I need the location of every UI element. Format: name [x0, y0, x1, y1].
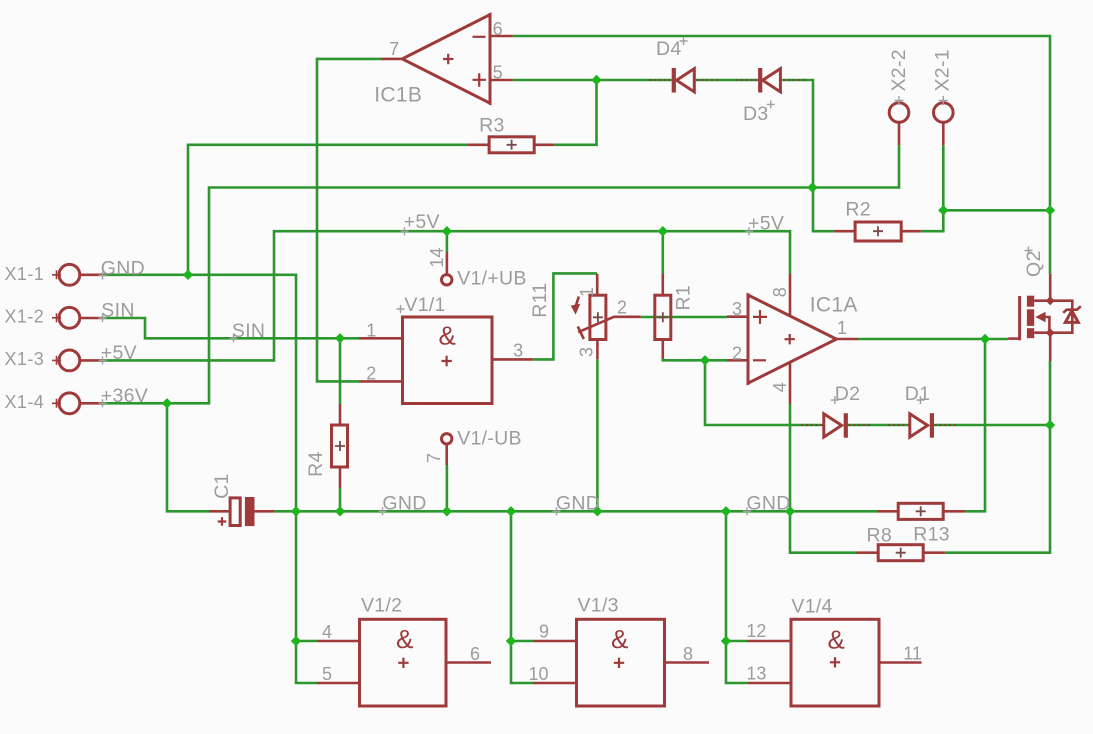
- svg-text:IC1A: IC1A: [810, 294, 858, 317]
- pin stub dashes near D1: [888, 424, 956, 426]
- svg-text:1: 1: [366, 321, 376, 341]
- wire R11 wiper to IC1A pin3: [641, 316, 727, 319]
- wire GND bus from C1 to R13 left: [274, 510, 877, 513]
- svg-text:R4: R4: [305, 451, 327, 477]
- op-amp IC1B: [381, 13, 513, 105]
- wire X2-1 drop to R2 right: [921, 145, 944, 231]
- svg-text:X1-1: X1-1: [5, 264, 45, 284]
- wire SIN X1-2 to V1/1 pin1: [104, 318, 359, 338]
- label D2 with origin cross: [831, 383, 861, 405]
- pin stub dashes near D2: [801, 424, 870, 426]
- label D3 with origin cross: [743, 100, 775, 124]
- svg-text:+5V: +5V: [404, 211, 440, 233]
- junction X2-1 line left: [938, 205, 948, 215]
- svg-text:2: 2: [617, 298, 627, 318]
- svg-text:3: 3: [732, 299, 742, 319]
- svg-text:3: 3: [513, 341, 523, 361]
- svg-text:&: &: [828, 624, 845, 654]
- svg-text:X1-4: X1-4: [5, 392, 45, 412]
- junction GND bus at V1/4 riser: [721, 506, 731, 516]
- junction SIN at R4 riser: [335, 333, 345, 343]
- net label SIN at X1-2: [99, 299, 135, 322]
- svg-text:X2-1: X2-1: [932, 49, 954, 91]
- diode D3: [758, 68, 780, 93]
- wire D1 to Q2 source junction: [934, 424, 1050, 427]
- svg-text:8: 8: [683, 644, 693, 664]
- wire between D4 and D3: [696, 79, 758, 82]
- wire IC1B.6 top rail to right vertical down to Q2 drain: [513, 36, 1050, 274]
- pin stub dashes near D3: [736, 79, 805, 81]
- junction pin5 line at R3 riser: [591, 75, 601, 85]
- svg-text:V1/3: V1/3: [578, 595, 619, 617]
- svg-text:10: 10: [529, 664, 549, 684]
- junction GND bus at V1/3 riser: [506, 506, 516, 516]
- wire D3 to corner down to R2 left: [782, 80, 834, 231]
- svg-text:D4: D4: [656, 38, 682, 60]
- svg-text:X1-2: X1-2: [5, 307, 45, 327]
- svg-text:12: 12: [746, 621, 766, 641]
- junction +5V rail at V1/+UB: [442, 226, 452, 236]
- svg-text:5: 5: [322, 664, 332, 684]
- wire GND bus to V1/4 pins 12 and 13: [726, 511, 748, 683]
- svg-text:R13: R13: [913, 523, 950, 545]
- junction GND bus at R11 riser: [592, 506, 602, 516]
- wire junction to D2/D1 line segment a: [705, 360, 824, 425]
- net label +5V at X1-3: [99, 342, 137, 364]
- wire +36V junction down to C1 left: [167, 403, 209, 511]
- net label +36V at X1-4: [99, 385, 149, 407]
- svg-text:5: 5: [493, 63, 503, 83]
- svg-text:8: 8: [770, 287, 790, 297]
- wire V1/+UB drop from +5V rail: [446, 231, 449, 252]
- svg-text:4: 4: [770, 382, 790, 392]
- wire R1 bottom to IC1A pin2: [663, 358, 727, 360]
- svg-text:&: &: [611, 624, 628, 654]
- svg-text:GND: GND: [556, 492, 600, 514]
- svg-text:6: 6: [470, 644, 480, 664]
- resistor R13: [877, 503, 965, 519]
- wire GND bus to V1/2 pins 4 and 5: [296, 511, 317, 683]
- wire GND bus to V1/3 pins 9 and 10: [511, 511, 533, 683]
- NAND gate V1/4: [747, 619, 922, 706]
- net label GND (bus right): [743, 492, 791, 515]
- wire R3 right end up to pin5 line junction: [554, 80, 596, 145]
- svg-text:D1: D1: [905, 383, 931, 405]
- resistor R1: [655, 274, 671, 359]
- potentiometer R11: [571, 274, 641, 359]
- wire R1 top to +5V rail: [661, 231, 664, 274]
- pin stub dashes near D4: [649, 79, 718, 81]
- svg-text:R1: R1: [673, 285, 695, 311]
- svg-text:6: 6: [493, 19, 503, 39]
- svg-text:11: 11: [903, 644, 922, 664]
- wire R4 bottom to GND bus: [339, 488, 342, 511]
- svg-text:Q2: Q2: [1023, 250, 1045, 277]
- svg-text:X1-3: X1-3: [5, 349, 45, 369]
- svg-text:GND: GND: [382, 492, 426, 514]
- wire +5V rail X1-3 up and across to IC1A pin8: [104, 231, 790, 360]
- wire R8 right up to D1/Q2 junction: [945, 361, 1050, 553]
- svg-text:V1/+UB: V1/+UB: [457, 267, 527, 289]
- svg-text:X2-2: X2-2: [888, 49, 910, 91]
- svg-text:2: 2: [732, 344, 742, 364]
- NAND gate V1/1: [359, 317, 533, 404]
- junction IC1A output / gate line: [980, 334, 990, 344]
- svg-text:GND: GND: [746, 492, 790, 514]
- op-amp IC1A: [727, 273, 858, 403]
- svg-text:4: 4: [322, 622, 332, 642]
- connector pin X2-2: [889, 96, 909, 145]
- svg-text:14: 14: [427, 248, 447, 268]
- svg-text:&: &: [396, 624, 413, 654]
- svg-text:13: 13: [746, 664, 766, 684]
- svg-text:&: &: [439, 321, 456, 351]
- power pin V1/+UB (pin 14): [442, 253, 452, 285]
- junction X2-1 line right: [1045, 205, 1055, 215]
- junction GND bus at IC1A pin4: [785, 506, 795, 516]
- connector pin X1-4: [52, 393, 104, 414]
- transistor Q2 (n-channel MOSFET with body diode): [1008, 274, 1081, 361]
- junction +5V rail at R1: [658, 226, 668, 236]
- junction D1 line / Q2 source: [1045, 420, 1055, 430]
- connector pin X2-1: [934, 96, 954, 145]
- svg-text:C1: C1: [211, 473, 233, 499]
- connector pin X1-1: [52, 264, 104, 285]
- junction V1/2 pin4: [291, 636, 301, 646]
- net label GND (bus middle): [553, 492, 601, 515]
- wire IC1B.5 line through D4/D3 segment a: [513, 79, 672, 82]
- svg-text:V1/4: V1/4: [791, 596, 832, 618]
- net label +5V (middle): [401, 211, 440, 235]
- NAND gate V1/2: [317, 619, 491, 706]
- svg-text:2: 2: [366, 364, 376, 384]
- diode D4: [672, 68, 695, 93]
- junction V1/3 pin9: [506, 636, 516, 646]
- wire GND bus down through R8 to Q2 source vertical: [790, 511, 857, 552]
- diode D1: [910, 413, 934, 438]
- wire V1/-UB drop to GND bus: [446, 465, 449, 511]
- wire +36V line X1-4 to X2-2 riser: [104, 145, 899, 403]
- junction GND bus at C1: [291, 506, 301, 516]
- capacitor C1: [209, 497, 274, 526]
- net label GND at X1-1: [99, 257, 146, 279]
- resistor R3: [468, 137, 554, 153]
- connector pin X1-3: [52, 350, 104, 371]
- svg-text:R3: R3: [479, 115, 505, 137]
- svg-text:GND: GND: [101, 257, 145, 279]
- power pin V1/-UB (pin 7): [442, 434, 452, 465]
- junction GND bus at V1/-UB: [442, 506, 452, 516]
- svg-text:3: 3: [577, 347, 597, 357]
- svg-text:V1/2: V1/2: [361, 595, 402, 617]
- label D1 with origin cross: [905, 383, 931, 405]
- svg-text:7: 7: [424, 453, 444, 463]
- connector pin X1-2: [52, 307, 104, 328]
- svg-text:D2: D2: [835, 383, 861, 405]
- label Q2 (rotated) with origin cross: [1023, 247, 1045, 278]
- svg-text:7: 7: [389, 39, 399, 59]
- wire X2-1 junction to right vertical: [943, 209, 1050, 212]
- resistor R2: [834, 222, 921, 241]
- svg-text:9: 9: [539, 622, 549, 642]
- wire IC1A output to Q2 gate: [858, 338, 1008, 341]
- svg-text:R2: R2: [845, 199, 871, 221]
- svg-text:+5V: +5V: [748, 213, 784, 235]
- svg-text:R11: R11: [529, 282, 551, 317]
- wire R3 left line down to GND junction: [188, 145, 468, 275]
- net label GND (bus left): [379, 492, 427, 515]
- wire IC1B.7 output to V1/1 pin2 (net N$1): [317, 59, 381, 382]
- wire V1/1.3 output to R11 pin1: [533, 273, 597, 359]
- resistor R4: [332, 404, 348, 488]
- junction +36V at C1 riser: [162, 398, 172, 408]
- wire IC1A pin4 down to GND bus: [789, 404, 792, 512]
- svg-text:+36V: +36V: [101, 385, 148, 407]
- svg-text:D3: D3: [743, 103, 769, 125]
- net label SIN (middle): [230, 320, 266, 342]
- svg-text:V1/-UB: V1/-UB: [457, 427, 522, 449]
- label D4 with origin cross: [656, 37, 688, 60]
- label V1/1 with origin cross: [397, 294, 446, 316]
- wire SIN junction down to R4 top: [339, 338, 342, 404]
- wire between D2 and D1: [848, 424, 910, 427]
- junction +36V line at D3 riser: [807, 182, 817, 192]
- junction R1 bottom / IC1A pin2: [700, 355, 710, 365]
- svg-text:R8: R8: [867, 524, 893, 546]
- junction on GND line at R3 riser: [183, 270, 193, 280]
- resistor R8: [857, 545, 945, 561]
- svg-text:1: 1: [577, 287, 597, 297]
- wire R11 pin3 down to GND bus: [596, 359, 599, 511]
- junction V1/4 pin12: [721, 636, 731, 646]
- NAND gate V1/3: [533, 619, 709, 706]
- wire GND X1-1 down to GND bus: [104, 275, 296, 512]
- wire IC1A output junction down to R13 right: [965, 339, 985, 511]
- svg-text:IC1B: IC1B: [374, 84, 422, 107]
- svg-text:1: 1: [837, 318, 847, 338]
- diode D2: [824, 413, 848, 438]
- junction GND bus at R4: [335, 506, 345, 516]
- svg-text:V1/1: V1/1: [404, 294, 445, 316]
- net label +5V (right): [745, 213, 784, 236]
